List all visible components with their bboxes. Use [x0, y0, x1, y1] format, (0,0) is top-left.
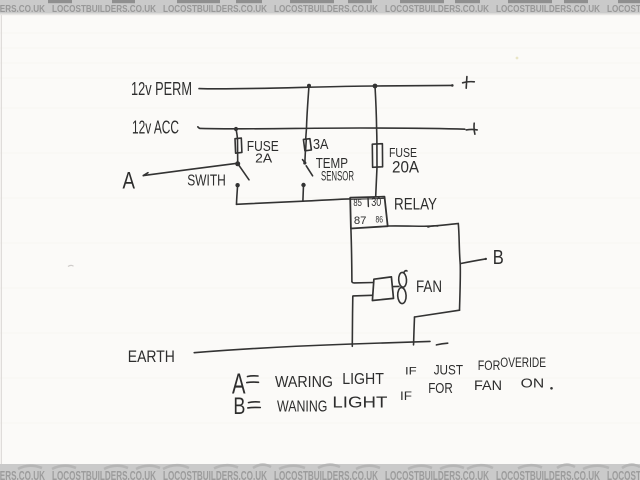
svg-text:WANING: WANING [277, 399, 327, 416]
svg-text:FAN: FAN [474, 377, 502, 393]
svg-text:30: 30 [371, 197, 381, 209]
svg-text:12v ACC: 12v ACC [132, 117, 179, 138]
svg-text:B: B [233, 393, 245, 420]
svg-text:LOCOSTBUILDERS.CO.UK: LOCOSTBUILDERS.CO.UK [163, 4, 268, 15]
svg-text:85: 85 [353, 198, 362, 209]
svg-text:LOCOSTBUILDERS.CO.UK: LOCOSTBUILDERS.CO.UK [607, 469, 640, 480]
svg-text:LOCOSTBUILDERS.CO.UK: LOCOSTBUILDERS.CO.UK [274, 469, 378, 480]
svg-text:A: A [123, 168, 136, 195]
svg-text:86: 86 [376, 214, 384, 225]
svg-text:SENSOR: SENSOR [321, 168, 354, 183]
svg-text:20A: 20A [392, 159, 419, 177]
svg-text:ON: ON [521, 376, 545, 391]
svg-text:2A: 2A [255, 150, 272, 165]
svg-text:FOR: FOR [428, 381, 453, 397]
svg-text:RELAY: RELAY [394, 196, 437, 214]
svg-text:LOCOSTBUILDERS.CO.UK: LOCOSTBUILDERS.CO.UK [496, 4, 601, 15]
svg-text:LOCOSTBUILDERS.CO.UK: LOCOSTBUILDERS.CO.UK [385, 4, 490, 15]
svg-text:SWITH: SWITH [187, 173, 226, 190]
svg-text:B: B [493, 247, 504, 269]
svg-text:OVERIDE: OVERIDE [500, 355, 546, 370]
svg-text:LIGHT: LIGHT [342, 371, 384, 388]
svg-text:JUST: JUST [434, 362, 464, 378]
svg-text:LIGHT: LIGHT [332, 395, 388, 412]
svg-text:LOCOSTBUILDERS.CO.UK: LOCOSTBUILDERS.CO.UK [385, 469, 489, 480]
svg-text:LOCOSTBUILDERS.CO.UK: LOCOSTBUILDERS.CO.UK [163, 469, 267, 480]
svg-text:LOCOSTBUILDERS.CO.UK: LOCOSTBUILDERS.CO.UK [0, 4, 46, 15]
svg-text:IF: IF [400, 391, 412, 403]
svg-text:12v PERM: 12v PERM [131, 79, 192, 99]
svg-text:LOCOSTBUILDERS.CO.UK: LOCOSTBUILDERS.CO.UK [52, 469, 156, 480]
svg-text:LOCOSTBUILDERS.CO.UK: LOCOSTBUILDERS.CO.UK [274, 4, 379, 15]
svg-text:EARTH: EARTH [128, 347, 175, 366]
svg-text:87: 87 [354, 215, 367, 227]
svg-text:LOCOSTBUILDERS.CO.UK: LOCOSTBUILDERS.CO.UK [0, 469, 45, 480]
svg-text:IF: IF [405, 366, 417, 378]
svg-text:3A: 3A [313, 137, 329, 153]
svg-text:LOCOSTBUILDERS.CO.UK: LOCOSTBUILDERS.CO.UK [52, 4, 157, 15]
svg-text:FAN: FAN [416, 277, 442, 296]
svg-text:LOCOSTBUILDERS.CO.UK: LOCOSTBUILDERS.CO.UK [607, 4, 640, 15]
svg-text:WARING: WARING [275, 374, 333, 391]
svg-text:FOR: FOR [478, 357, 501, 373]
svg-text:LOCOSTBUILDERS.CO.UK: LOCOSTBUILDERS.CO.UK [496, 469, 600, 480]
